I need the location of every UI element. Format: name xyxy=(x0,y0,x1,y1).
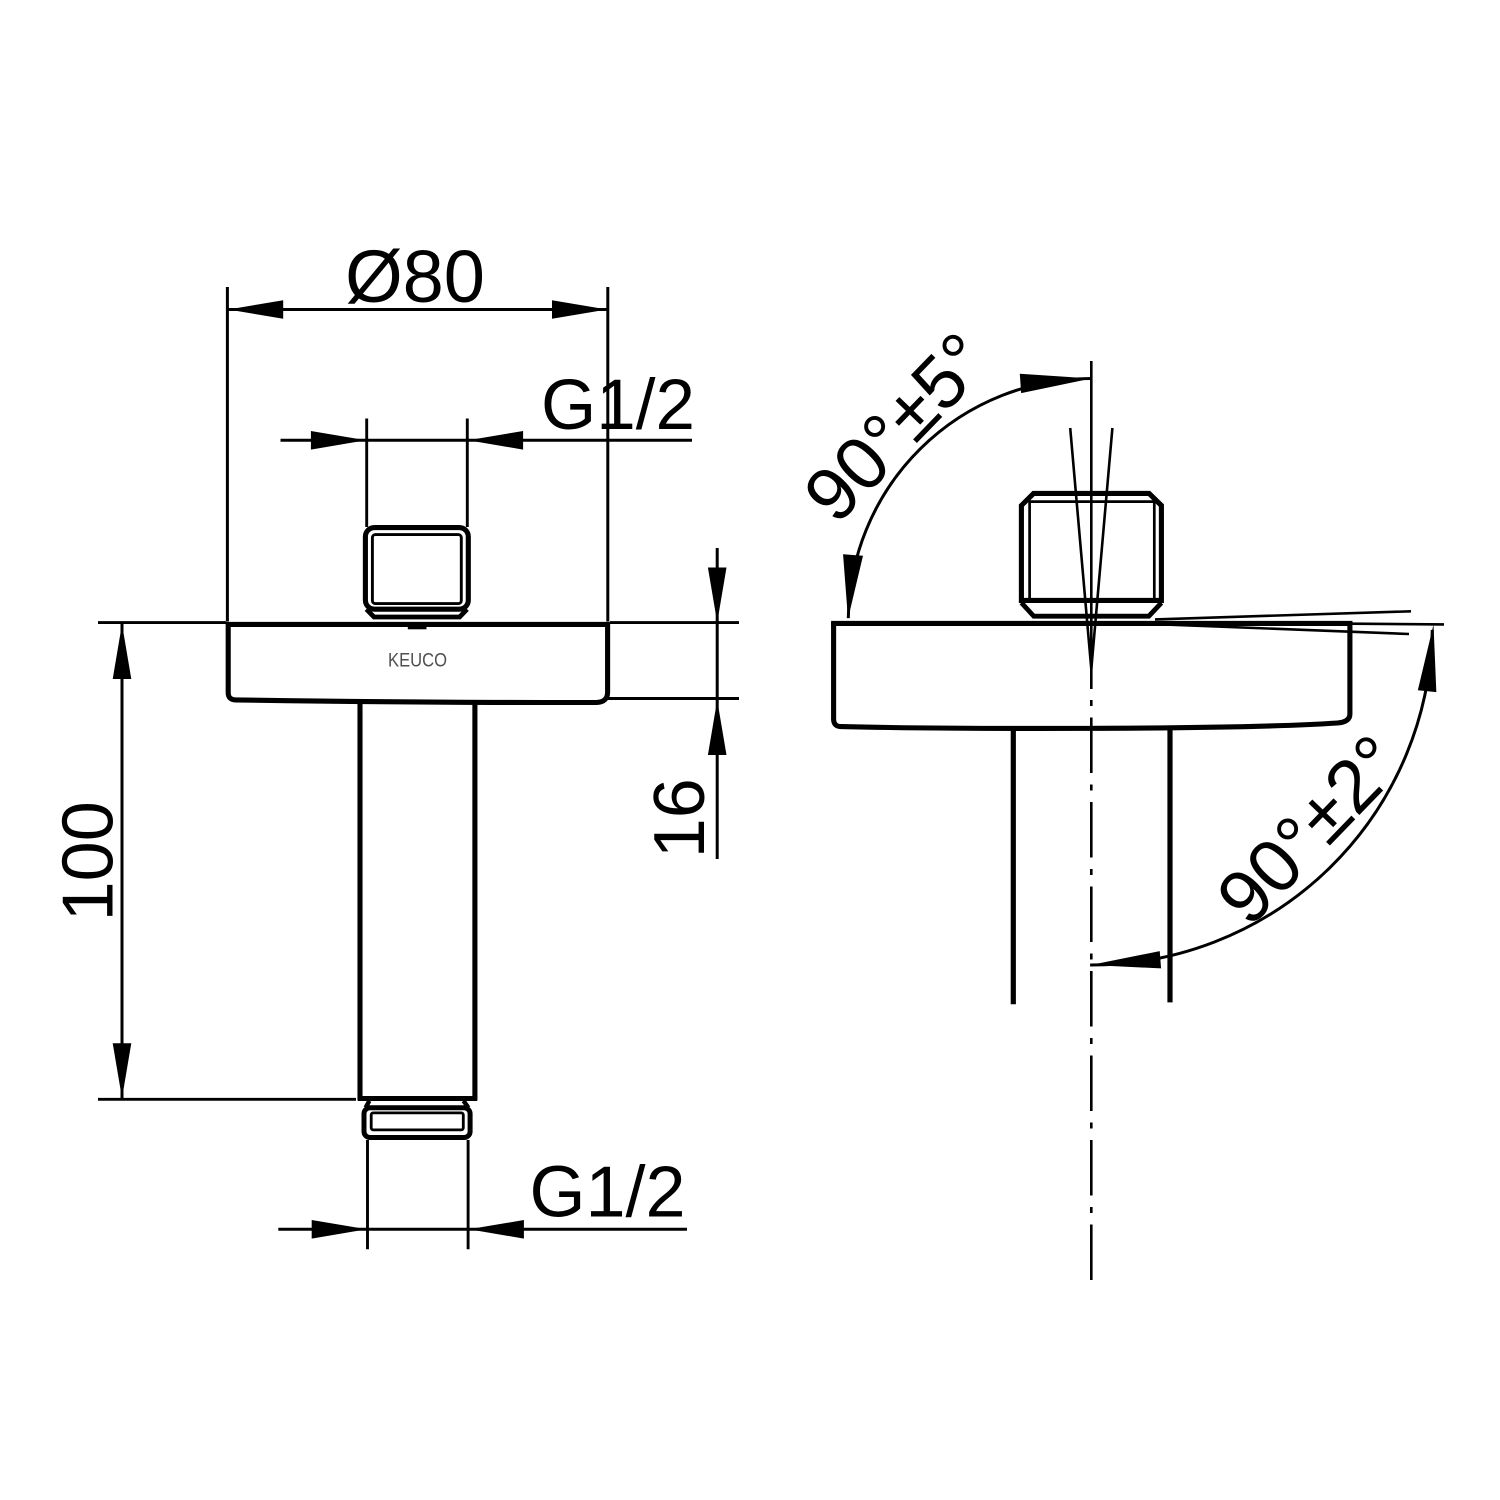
svg-text:100: 100 xyxy=(49,801,129,921)
dimension G1/2 bottom arrow right xyxy=(469,1220,524,1239)
nut skirt (right view) xyxy=(1021,603,1161,616)
tolerance line ±5 right xyxy=(1091,428,1112,669)
thread chamfer left xyxy=(366,1101,370,1108)
nut skirt (left view) xyxy=(366,609,467,617)
svg-text:KEUCO: KEUCO xyxy=(388,650,447,671)
dimension G1/2 top extension line left xyxy=(365,419,368,528)
dimension 16 extension line bottom xyxy=(605,697,739,700)
pipe right edge (right view) xyxy=(1167,729,1172,1003)
dimension 16 line xyxy=(716,548,719,859)
tolerance fan line lower xyxy=(1160,624,1409,634)
svg-text:16: 16 xyxy=(640,778,720,858)
dimension G1/2 top line xyxy=(281,439,693,442)
dimension 16 arrow bottom xyxy=(708,700,727,755)
arc 90±2 xyxy=(1090,630,1432,965)
arc 90±2 arrow bottom xyxy=(1090,951,1161,974)
tolerance fan line upper xyxy=(1155,611,1411,619)
svg-text:G1/2: G1/2 xyxy=(530,1153,686,1233)
dimension 16 extension line top xyxy=(610,621,739,624)
nut outer (right view) xyxy=(1021,493,1161,600)
dimension 16 arrow top xyxy=(708,568,727,623)
dimension 100 arrow bottom xyxy=(113,1043,132,1098)
centerline dash-dot lower part xyxy=(1090,700,1093,1283)
dimension G1/2 top arrow left xyxy=(311,431,366,450)
svg-text:Ø80: Ø80 xyxy=(345,235,485,318)
dimension Ø80 arrow left xyxy=(228,300,283,319)
dimension G1/2 top arrow right xyxy=(468,431,523,450)
nut outer (left view) xyxy=(365,528,468,610)
flange body (left view) xyxy=(228,622,607,702)
thread collar outer xyxy=(364,1108,470,1138)
nut tab (left view) xyxy=(408,623,427,629)
pipe right edge (left view) xyxy=(472,703,477,1101)
pipe left edge (left view) xyxy=(357,702,362,1100)
tolerance fan line middle xyxy=(1352,622,1444,625)
dimension Ø80 extension line left xyxy=(226,287,229,622)
nut inner lines (right view) xyxy=(1030,502,1155,600)
arc 90±5 xyxy=(848,379,1091,619)
centerline solid upper part xyxy=(1090,361,1093,689)
arc 90±5 arrow top xyxy=(1020,369,1092,393)
tolerance line ±5 left xyxy=(1070,428,1091,669)
dimension G1/2 bottom extension line right xyxy=(467,1140,470,1249)
dimension Ø80 line xyxy=(227,308,607,311)
dimension 100 arrow top xyxy=(113,624,132,679)
flange top line (right view) xyxy=(831,621,1352,626)
dimension G1/2 bottom line xyxy=(278,1228,687,1231)
dimension G1/2 bottom extension line left xyxy=(366,1140,369,1249)
thread chamfer right xyxy=(464,1101,469,1108)
flange top line (left view) xyxy=(226,622,610,627)
dimension 100 extension line bottom xyxy=(98,1098,356,1101)
dimension Ø80 extension line right xyxy=(606,287,609,622)
dimension 100 extension line top xyxy=(98,621,226,624)
arc 90±2 arrow top xyxy=(1418,624,1443,692)
arc 90±5 arrow bottom xyxy=(838,554,863,619)
pipe bottom cap (left view) xyxy=(358,1096,478,1101)
dimension Ø80 arrow right xyxy=(552,300,607,319)
flange body (right view) xyxy=(834,622,1350,729)
svg-text:G1/2: G1/2 xyxy=(541,366,695,445)
dimension 100 line xyxy=(121,624,124,1098)
dimension G1/2 bottom arrow left xyxy=(312,1220,367,1239)
pipe left edge (right view) xyxy=(1011,730,1016,1005)
thread collar inner xyxy=(371,1113,463,1130)
dimension G1/2 top extension line right xyxy=(466,419,469,528)
nut inner (left view) xyxy=(372,535,461,604)
